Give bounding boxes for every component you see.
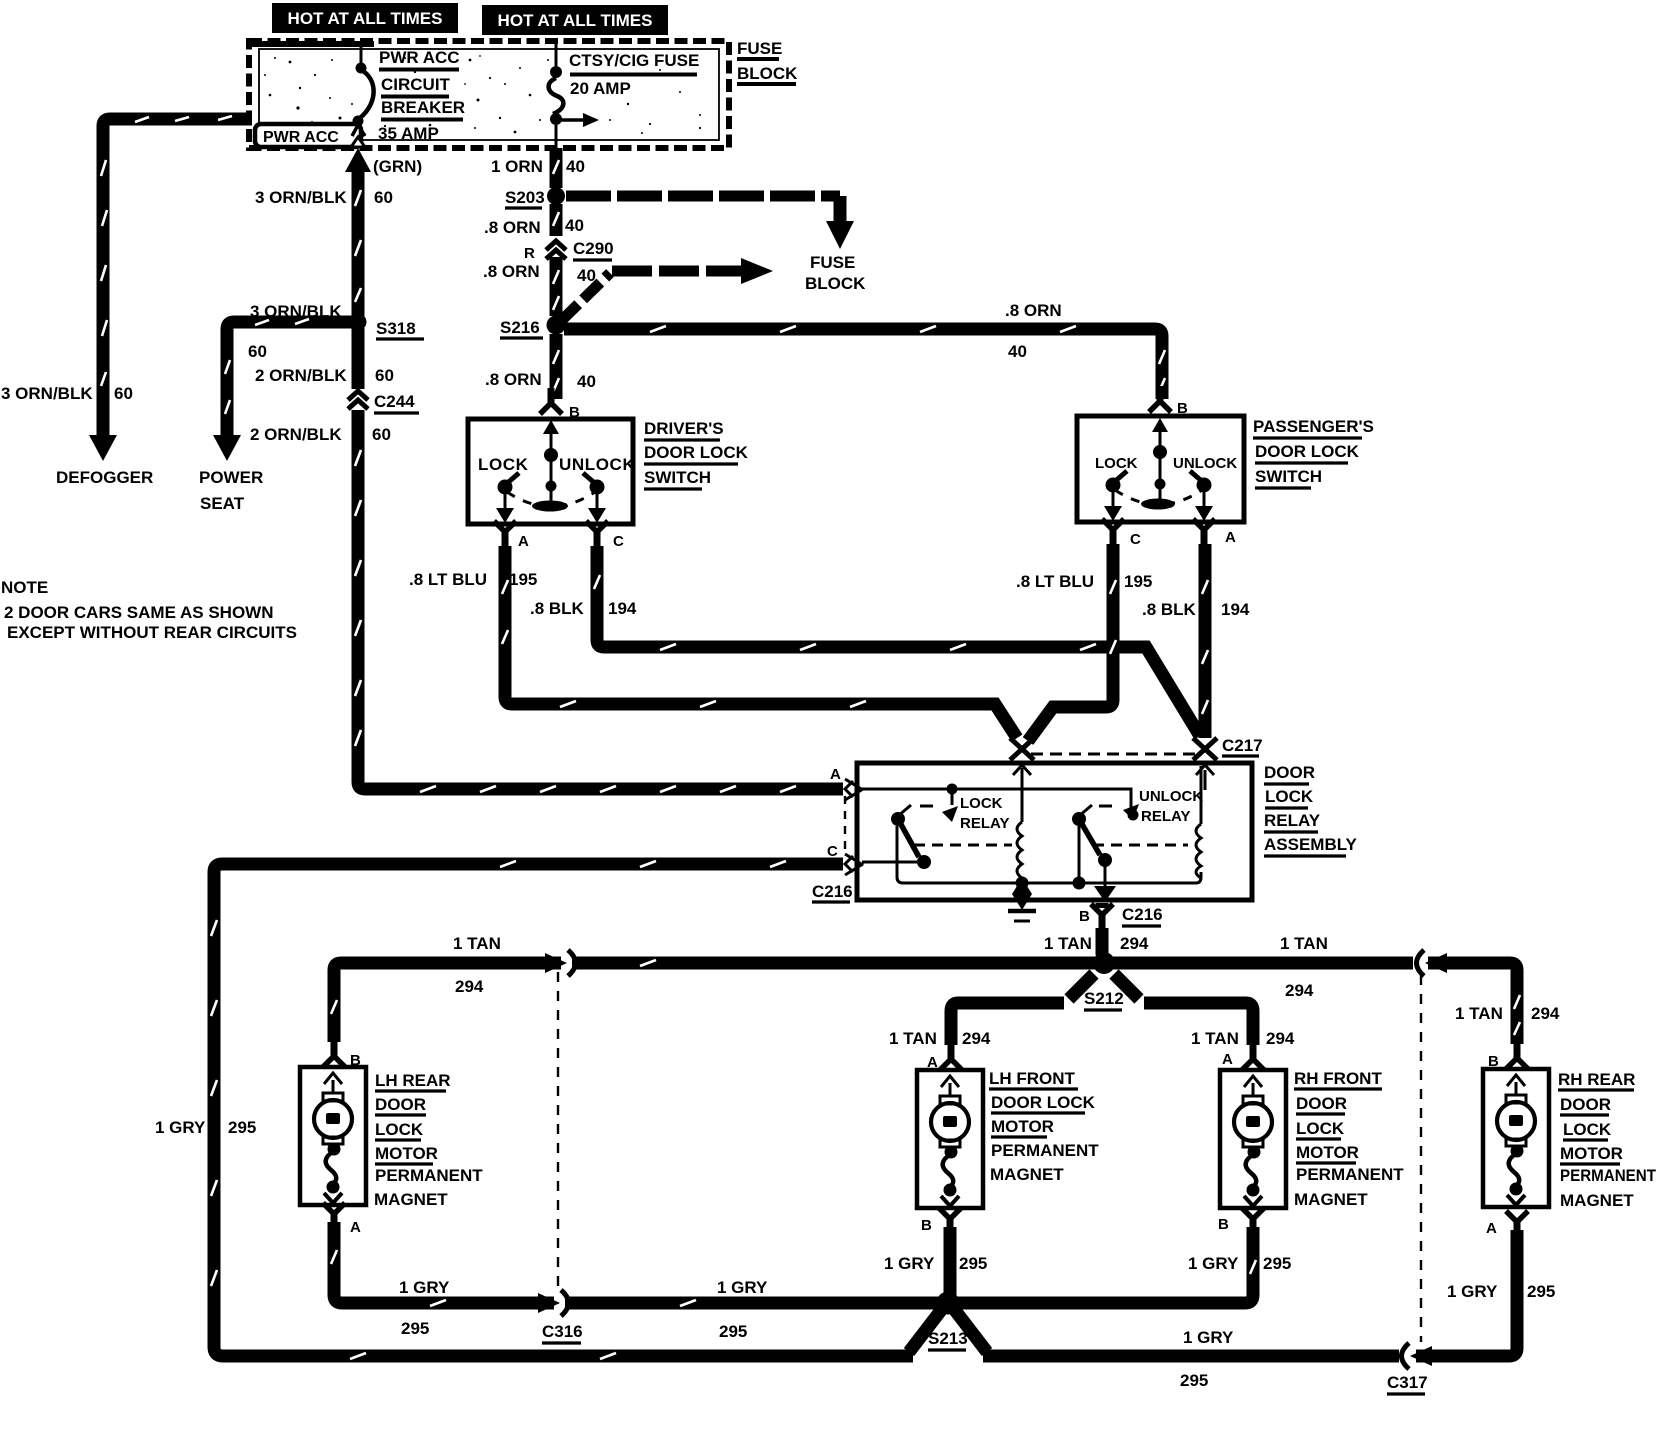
svg-text:60: 60 — [114, 384, 133, 403]
dashed connector line between A and C — [844, 796, 846, 856]
svg-text:UNLOCK: UNLOCK — [1139, 788, 1203, 805]
driver switch internals — [478, 420, 635, 523]
wire .8 ORN S216 to passenger's switch B — [564, 326, 1165, 399]
label .8 LT BLU 195 (driver) — [409, 570, 537, 589]
svg-text:C: C — [1130, 531, 1141, 548]
inline connector on TAN bus at C317 line — [1417, 950, 1448, 976]
svg-text:MOTOR: MOTOR — [1560, 1144, 1623, 1163]
svg-text:.8 ORN: .8 ORN — [1005, 301, 1062, 320]
svg-text:RH FRONT: RH FRONT — [1294, 1069, 1382, 1088]
fuse block dashed outline — [249, 41, 729, 148]
svg-text:2 ORN/BLK: 2 ORN/BLK — [250, 425, 342, 444]
wire LH FRONT B down to S213 — [944, 1227, 957, 1297]
svg-text:C: C — [827, 843, 838, 860]
wire (GRN) vertical from fuse block — [345, 148, 371, 316]
fuse labels — [569, 51, 699, 98]
label 1 GRY 295 (left of C316) — [399, 1278, 450, 1338]
label 2 ORN/BLK 60 (above C244) — [255, 366, 394, 385]
svg-text:20 AMP: 20 AMP — [570, 79, 631, 98]
dashed connector line C317 — [1420, 975, 1422, 1342]
svg-text:.8 BLK: .8 BLK — [530, 599, 585, 618]
svg-text:295: 295 — [401, 1319, 429, 1338]
lock relay switch — [862, 805, 1016, 883]
wire bottom 1 GRY bus right — [983, 1230, 1517, 1356]
svg-text:MAGNET: MAGNET — [1560, 1191, 1634, 1210]
svg-text:MOTOR: MOTOR — [375, 1144, 438, 1163]
wire .8 ORN S203 to C290 — [553, 204, 559, 236]
svg-text:RH REAR: RH REAR — [1558, 1070, 1635, 1089]
label LH REAR DOOR LOCK MOTOR PERMANENT MAGNET — [374, 1071, 483, 1209]
wire passenger C joins driver A at relay lock terminal — [1028, 544, 1116, 741]
wire S212 to LH FRONT A — [951, 974, 1094, 1045]
label UNLOCK RELAY — [1099, 788, 1203, 825]
terminal into LH FRONT motor — [940, 1044, 962, 1070]
svg-text:1 GRY: 1 GRY — [1447, 1282, 1498, 1301]
svg-text:C290: C290 — [573, 239, 614, 258]
label 1 GRY 295 (LH FRONT B wire) — [884, 1254, 987, 1273]
svg-text:BLOCK: BLOCK — [805, 274, 866, 293]
terminal from RH FRONT motor B — [1218, 1208, 1264, 1234]
circuit breaker symbol — [351, 45, 374, 147]
junction S318 — [350, 314, 425, 340]
svg-text:MAGNET: MAGNET — [374, 1190, 448, 1209]
svg-text:3 ORN/BLK: 3 ORN/BLK — [1, 384, 93, 403]
svg-text:FUSE: FUSE — [737, 39, 782, 58]
junction S212 — [1084, 952, 1124, 1010]
label DRIVER'S DOOR LOCK SWITCH — [644, 419, 749, 489]
svg-text:B: B — [1218, 1216, 1229, 1233]
label 1 TAN 294 (RH REAR B wire) — [1455, 1004, 1560, 1023]
terminal into LH REAR motor — [323, 1041, 345, 1067]
svg-text:C217: C217 — [1222, 736, 1263, 755]
wire S212 to RH FRONT A — [1114, 974, 1253, 1045]
wire S318 down to C244 — [352, 328, 365, 389]
svg-text:294: 294 — [1120, 934, 1149, 953]
svg-text:EXCEPT WITHOUT REAR CIRCUITS: EXCEPT WITHOUT REAR CIRCUITS — [7, 623, 297, 642]
svg-text:SWITCH: SWITCH — [644, 468, 711, 487]
terminal into RH REAR motor — [1506, 1043, 1528, 1069]
svg-text:DRIVER'S: DRIVER'S — [644, 419, 724, 438]
svg-text:35 AMP: 35 AMP — [378, 124, 439, 143]
svg-text:1 GRY: 1 GRY — [155, 1118, 206, 1137]
label POWER SEAT — [199, 468, 263, 513]
svg-text:2 ORN/BLK: 2 ORN/BLK — [255, 366, 347, 385]
fuse feed arrow — [561, 113, 599, 127]
svg-text:UNLOCK: UNLOCK — [559, 455, 635, 474]
arrow to DEFOGGER — [89, 435, 117, 461]
label DOOR LOCK RELAY ASSEMBLY — [1264, 763, 1358, 856]
dashed feed arrow from S216 to fuse block (right arrow) — [561, 258, 773, 321]
FUSE BLOCK title (underlined, right of box) — [737, 39, 798, 84]
wire passenger A down to C217 — [1202, 544, 1208, 738]
svg-text:295: 295 — [719, 1322, 747, 1341]
svg-text:S318: S318 — [376, 319, 416, 338]
svg-text:RELAY: RELAY — [1264, 811, 1321, 830]
label FUSE BLOCK (arrow target) — [805, 253, 866, 293]
svg-text:1 GRY: 1 GRY — [1188, 1254, 1239, 1273]
svg-text:DOOR: DOOR — [375, 1095, 426, 1114]
inline connector C316 — [538, 1290, 583, 1343]
svg-text:NOTE: NOTE — [1, 578, 48, 597]
arrow to POWER SEAT — [213, 435, 241, 461]
wire relay terminal C feed (long loop to bottom bus) — [211, 861, 913, 1359]
svg-text:S212: S212 — [1084, 989, 1124, 1008]
svg-text:PERMANENT: PERMANENT — [1296, 1165, 1404, 1184]
terminal from RH REAR motor A — [1486, 1211, 1528, 1237]
PWR ACC terminal label box — [255, 124, 361, 147]
terminal into RH FRONT motor — [1242, 1044, 1264, 1070]
label 1 GRY 295 (RH FRONT B wire) — [1188, 1254, 1291, 1273]
svg-text:S203: S203 — [505, 188, 545, 207]
terminal C (passenger) — [1102, 519, 1141, 548]
svg-text:C317: C317 — [1387, 1373, 1428, 1392]
label 1 GRY 295 (RH REAR A wire) — [1447, 1282, 1555, 1301]
passenger switch internals — [1095, 418, 1237, 521]
svg-text:C244: C244 — [374, 392, 415, 411]
note text — [1, 578, 297, 642]
svg-text:DOOR: DOOR — [1560, 1095, 1611, 1114]
svg-text:UNLOCK: UNLOCK — [1173, 455, 1237, 472]
svg-text:A: A — [350, 1219, 361, 1236]
svg-text:40: 40 — [566, 157, 585, 176]
svg-text:B: B — [921, 1217, 932, 1234]
svg-text:C: C — [613, 533, 624, 550]
svg-text:PWR ACC: PWR ACC — [379, 48, 460, 67]
svg-text:60: 60 — [372, 425, 391, 444]
label 1 GRY 295 (left vertical) — [155, 1118, 256, 1137]
svg-text:294: 294 — [455, 977, 484, 996]
svg-text:295: 295 — [1180, 1371, 1208, 1390]
label 3 ORN/BLK 60 (GRN wire) — [255, 188, 393, 207]
svg-text:DOOR LOCK: DOOR LOCK — [991, 1093, 1096, 1112]
label RH REAR DOOR LOCK MOTOR PERMANENT MAGNET — [1558, 1070, 1657, 1210]
lock relay dashed actuator line — [914, 844, 1012, 847]
svg-text:.8 LT BLU: .8 LT BLU — [409, 570, 487, 589]
svg-text:40: 40 — [577, 372, 596, 391]
svg-text:S216: S216 — [500, 318, 540, 337]
svg-text:DOOR: DOOR — [1296, 1094, 1347, 1113]
inline connector C317 — [1387, 1343, 1432, 1394]
label 2 ORN/BLK 60 (below C244) — [250, 425, 391, 444]
svg-text:LOCK: LOCK — [960, 795, 1003, 812]
label 1 TAN 294 (left segment) — [453, 934, 501, 996]
svg-text:SWITCH: SWITCH — [1255, 467, 1322, 486]
svg-text:2 DOOR CARS SAME AS SHOWN: 2 DOOR CARS SAME AS SHOWN — [4, 603, 274, 622]
motor RH FRONT door lock — [1220, 1070, 1286, 1208]
svg-text:PERMANENT: PERMANENT — [375, 1166, 483, 1185]
label 3 ORN/BLK 60 (defogger wire) — [1, 384, 133, 403]
power tag HOT AT ALL TIMES (left) — [272, 3, 458, 33]
label 1 TAN 294 A (LH FRONT) — [889, 1029, 991, 1071]
svg-text:1 GRY: 1 GRY — [1183, 1328, 1234, 1347]
svg-text:CIRCUIT: CIRCUIT — [381, 75, 451, 94]
svg-text:.8 LT BLU: .8 LT BLU — [1016, 572, 1094, 591]
svg-text:FUSE: FUSE — [810, 253, 855, 272]
svg-text:B: B — [1079, 908, 1090, 925]
svg-text:C216: C216 — [1122, 905, 1163, 924]
relay terminal C (half-arrow) — [827, 843, 863, 875]
svg-text:40: 40 — [1008, 342, 1027, 361]
svg-text:DOOR LOCK: DOOR LOCK — [644, 443, 749, 462]
motor LH FRONT door lock — [917, 1070, 983, 1208]
svg-text:MOTOR: MOTOR — [1296, 1143, 1359, 1162]
svg-text:1 GRY: 1 GRY — [717, 1278, 768, 1297]
lock coil feed entry (X arrow) — [1010, 738, 1034, 790]
terminal from LH REAR motor A — [323, 1203, 361, 1236]
ground — [1008, 878, 1036, 921]
svg-text:ASSEMBLY: ASSEMBLY — [1264, 835, 1358, 854]
svg-text:DOOR LOCK: DOOR LOCK — [1255, 442, 1360, 461]
connector C290 — [524, 239, 614, 262]
label 1 GRY 295 (right of C316) — [717, 1278, 768, 1341]
wire 1 ORN from fuse to S203 — [553, 148, 559, 188]
motor RH REAR door lock — [1483, 1069, 1549, 1207]
svg-text:C316: C316 — [542, 1322, 583, 1341]
label LOCK RELAY — [920, 795, 1009, 832]
wire PWR ACC feed to defogger — [101, 116, 252, 437]
svg-text:PWR ACC: PWR ACC — [263, 129, 339, 146]
svg-text:295: 295 — [1527, 1282, 1555, 1301]
svg-text:295: 295 — [228, 1118, 256, 1137]
svg-text:295: 295 — [959, 1254, 987, 1273]
power tag HOT AT ALL TIMES (right) — [482, 5, 668, 35]
svg-text:294: 294 — [1285, 981, 1314, 1000]
junction S213 — [928, 1292, 968, 1351]
svg-text:295: 295 — [1263, 1254, 1291, 1273]
svg-text:SEAT: SEAT — [200, 494, 245, 513]
wire C244 down and right to relay terminal A — [355, 410, 843, 792]
label .8 ORN (passenger feed) — [1005, 301, 1062, 361]
motor LH REAR door lock — [300, 1067, 366, 1205]
wire .8 ORN S216 to driver's switch B — [553, 334, 559, 399]
label PASSENGER'S DOOR LOCK SWITCH — [1253, 417, 1374, 488]
svg-text:194: 194 — [1221, 600, 1250, 619]
svg-text:HOT AT ALL TIMES: HOT AT ALL TIMES — [498, 11, 653, 30]
wire S318 to power seat — [225, 319, 352, 436]
svg-text:LOCK: LOCK — [1095, 455, 1138, 472]
svg-text:60: 60 — [374, 188, 393, 207]
label 1 TAN 294 (relay B wire) — [1044, 934, 1149, 953]
door lock relay assembly box — [857, 763, 1252, 900]
label RH FRONT DOOR LOCK MOTOR PERMANENT MAGNET — [1294, 1069, 1404, 1209]
terminal C (driver) — [586, 521, 624, 550]
svg-text:195: 195 — [1124, 572, 1152, 591]
svg-text:(GRN): (GRN) — [373, 157, 422, 176]
circuit breaker labels — [378, 48, 465, 143]
svg-text:LOCK: LOCK — [1296, 1119, 1345, 1138]
svg-text:MOTOR: MOTOR — [991, 1117, 1054, 1136]
wire relay B to S212 with connector C216 — [1079, 903, 1163, 955]
svg-text:40: 40 — [565, 216, 584, 235]
svg-text:3 ORN/BLK: 3 ORN/BLK — [250, 302, 342, 321]
svg-text:MAGNET: MAGNET — [990, 1165, 1064, 1184]
junction S216 — [500, 316, 566, 339]
label .8 BLK 194 (passenger) — [1142, 600, 1250, 619]
svg-text:PERMANENT: PERMANENT — [991, 1141, 1099, 1160]
svg-text:.8 BLK: .8 BLK — [1142, 600, 1197, 619]
label 1 TAN 294 (right of S212) — [1280, 934, 1328, 1000]
terminal from LH FRONT motor B — [921, 1208, 961, 1234]
terminal A (passenger) — [1193, 519, 1236, 546]
svg-text:60: 60 — [248, 342, 267, 361]
svg-text:LOCK: LOCK — [1265, 787, 1314, 806]
svg-text:A: A — [1225, 529, 1236, 546]
svg-text:B: B — [569, 404, 580, 421]
svg-text:1 TAN: 1 TAN — [1191, 1029, 1239, 1048]
wire .8 ORN C290 to S216 — [553, 257, 559, 316]
svg-text:.8 ORN: .8 ORN — [485, 370, 542, 389]
svg-text:.8 ORN: .8 ORN — [484, 218, 541, 237]
svg-text:PERMANENT: PERMANENT — [1560, 1166, 1657, 1185]
svg-text:195: 195 — [509, 570, 537, 589]
svg-text:LOCK: LOCK — [478, 455, 529, 474]
svg-text:B: B — [1177, 400, 1188, 417]
dashed connector line C316 — [557, 972, 559, 1288]
svg-text:60: 60 — [375, 366, 394, 385]
label 1 GRY 295 (bottom bus) — [1180, 1328, 1234, 1390]
relay top dashed connector line — [1031, 753, 1196, 756]
connector C217 entry (X arrow) — [1193, 736, 1263, 790]
svg-text:1 TAN: 1 TAN — [453, 934, 501, 953]
label .8 ORN 40 — [484, 216, 584, 237]
svg-text:1 GRY: 1 GRY — [884, 1254, 935, 1273]
svg-text:1 TAN: 1 TAN — [1455, 1004, 1503, 1023]
relay B output arrow — [1094, 866, 1116, 902]
svg-text:1 TAN: 1 TAN — [889, 1029, 937, 1048]
svg-text:.8 ORN: .8 ORN — [483, 262, 540, 281]
svg-text:A: A — [1486, 1220, 1497, 1237]
unlock relay coil — [1196, 766, 1201, 878]
terminal B (passenger) — [1149, 386, 1188, 417]
svg-text:HOT AT ALL TIMES: HOT AT ALL TIMES — [288, 9, 443, 28]
svg-text:DEFOGGER: DEFOGGER — [56, 468, 153, 487]
svg-text:A: A — [518, 533, 529, 550]
connector C216 (left label) — [812, 882, 853, 902]
CTSY/CIG fuse symbol — [549, 44, 564, 148]
fuse block speckle texture — [264, 55, 701, 136]
svg-text:BREAKER: BREAKER — [381, 98, 465, 117]
connector C244 — [348, 391, 419, 413]
svg-text:POWER: POWER — [199, 468, 263, 487]
unlock relay dashed actuator line — [1093, 844, 1188, 847]
wire driver A to relay lock terminal — [502, 546, 1017, 738]
junction S203 — [505, 187, 565, 208]
svg-text:194: 194 — [608, 599, 637, 618]
svg-text:3 ORN/BLK: 3 ORN/BLK — [255, 188, 347, 207]
svg-text:LOCK: LOCK — [1563, 1120, 1612, 1139]
wire S213 diagonals to bottom bus — [909, 1309, 987, 1352]
svg-text:294: 294 — [1531, 1004, 1560, 1023]
label .8 LT BLU 195 (passenger) — [1016, 572, 1152, 591]
svg-text:PASSENGER'S: PASSENGER'S — [1253, 417, 1374, 436]
relay terminal A (half-arrow) — [830, 766, 863, 800]
svg-text:1 ORN: 1 ORN — [491, 157, 543, 176]
svg-text:S213: S213 — [928, 1329, 968, 1348]
svg-text:CTSY/CIG FUSE: CTSY/CIG FUSE — [569, 51, 699, 70]
label 1 ORN 40 — [491, 157, 585, 176]
passenger's door lock switch box — [1077, 416, 1244, 522]
svg-text:A: A — [1222, 1051, 1233, 1068]
label .8 ORN 40 — [483, 262, 596, 285]
lock relay coil — [1016, 768, 1029, 890]
svg-text:MAGNET: MAGNET — [1294, 1190, 1368, 1209]
inline connector on TAN bus at C316 line — [545, 950, 576, 976]
terminal A (driver) — [494, 521, 529, 550]
label .8 BLK 194 (driver) — [530, 599, 637, 618]
svg-text:R: R — [524, 245, 535, 262]
unlock relay switch — [1028, 805, 1201, 890]
dashed feed arrow from S203 to fuse block (down arrow) — [566, 196, 854, 249]
svg-text:DOOR: DOOR — [1264, 763, 1315, 782]
label LH FRONT DOOR LOCK MOTOR PERMANENT MAGNET — [989, 1069, 1099, 1184]
svg-text:1 TAN: 1 TAN — [1044, 934, 1092, 953]
driver's door lock switch box — [468, 419, 633, 524]
svg-text:LOCK: LOCK — [375, 1120, 424, 1139]
svg-text:RELAY: RELAY — [1141, 808, 1190, 825]
svg-text:1 GRY: 1 GRY — [399, 1278, 450, 1297]
wire 1 GRY bus LH REAR A to RH FRONT B — [331, 1222, 1256, 1306]
svg-text:1 TAN: 1 TAN — [1280, 934, 1328, 953]
terminal B (driver) — [540, 388, 580, 421]
svg-text:BLOCK: BLOCK — [737, 64, 798, 83]
svg-text:A: A — [830, 766, 841, 783]
svg-text:294: 294 — [962, 1029, 991, 1048]
wire main 1 TAN bus — [331, 960, 1413, 1042]
svg-text:RELAY: RELAY — [960, 815, 1009, 832]
svg-text:C216: C216 — [812, 882, 853, 901]
label .8 ORN 40 (driver B wire) — [485, 370, 596, 391]
svg-text:LH REAR: LH REAR — [375, 1071, 451, 1090]
wire TAN bus to RH REAR B — [1428, 963, 1520, 1044]
svg-text:294: 294 — [1266, 1029, 1295, 1048]
relay A bus line — [862, 784, 1139, 823]
label 1 TAN 294 A (RH FRONT) — [1191, 1029, 1295, 1068]
wire driver C to relay C217 — [594, 546, 1200, 736]
svg-text:LH FRONT: LH FRONT — [989, 1069, 1076, 1088]
